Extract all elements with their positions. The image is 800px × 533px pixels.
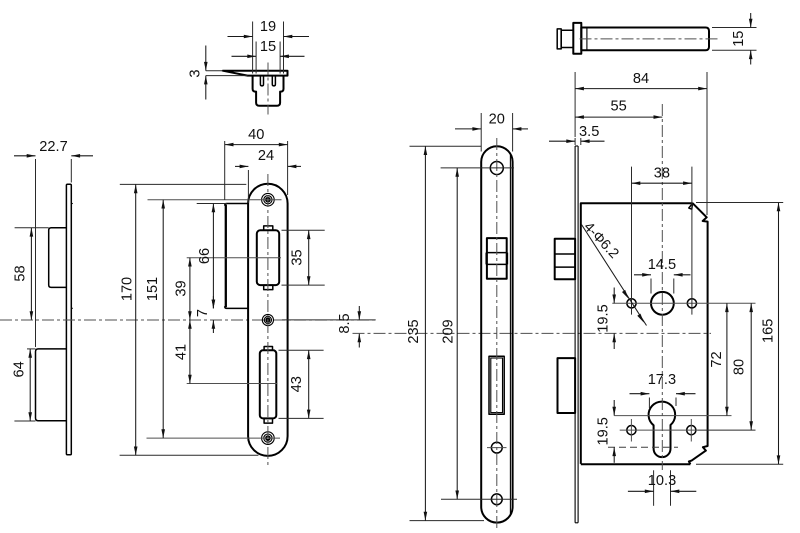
svg-text:19.5: 19.5: [595, 417, 611, 445]
dim 35: [282, 229, 325, 231]
dim 151: [162, 200, 164, 438]
dim 66: [197, 203, 227, 205]
lip fold ticks: [71, 203, 73, 205]
dim 235: [410, 145, 482, 147]
strike side: plate: [66, 184, 71, 454]
dim 15: [712, 27, 757, 29]
svg-text:170: 170: [119, 277, 135, 301]
svg-text:66: 66: [197, 248, 213, 264]
dim 19.5 lower: [613, 400, 615, 416]
dim 14.5: [650, 279, 652, 294]
latch bolt in case: [555, 239, 575, 279]
svg-text:151: 151: [145, 277, 161, 301]
latch head joint: [586, 28, 588, 51]
screw hole bottom: [262, 432, 275, 445]
deadbolt roller: [260, 350, 277, 418]
centerline: [267, 63, 269, 115]
svg-text:19.5: 19.5: [595, 304, 611, 332]
svg-text:84: 84: [633, 71, 649, 87]
svg-text:72: 72: [709, 351, 725, 367]
vertical centerline: [267, 174, 269, 468]
strike front: lip left edge: [225, 205, 227, 308]
svg-text:58: 58: [12, 265, 28, 281]
svg-text:40: 40: [248, 127, 264, 143]
upper fixing holes: [627, 299, 636, 308]
dim 84: [574, 72, 576, 137]
row: bottom hole center: [147, 437, 281, 439]
dust box top view: cup outline: [253, 76, 284, 106]
centerline: [580, 38, 721, 40]
dim 8.5: [358, 306, 360, 320]
row 333.4 (latch axis): [353, 332, 712, 334]
svg-text:43: 43: [289, 376, 305, 392]
svg-text:38: 38: [654, 166, 670, 182]
strike front: lip top/bottom edges: [225, 204, 249, 206]
screw hole middle: [262, 314, 273, 325]
top screw hole: [490, 162, 503, 175]
dim 3.5: [574, 138, 576, 145]
svg-text:41: 41: [173, 344, 189, 360]
faceplate side edge: [574, 146, 576, 523]
dim 170: [120, 183, 247, 185]
svg-text:64: 64: [12, 361, 28, 377]
strike side: lower cup: [36, 349, 67, 421]
dim 64: [27, 348, 36, 350]
svg-text:209: 209: [441, 319, 457, 343]
follower/cylinder vertical centerline: [661, 104, 663, 470]
svg-text:14.5: 14.5: [648, 257, 676, 273]
deadbolt in case: [558, 358, 576, 413]
latch window: [487, 238, 507, 279]
centerline: [496, 138, 498, 530]
datum row y=320: [0, 319, 376, 321]
dim 80: [698, 429, 756, 431]
svg-text:20: 20: [489, 112, 505, 128]
latch stem: [561, 30, 573, 47]
svg-text:80: 80: [731, 359, 747, 375]
euro cylinder: [649, 402, 676, 458]
lock case outline: [581, 203, 693, 464]
dim 41: [189, 320, 191, 384]
svg-text:3.5: 3.5: [579, 124, 599, 140]
leader 4-phi6.2: [582, 225, 647, 326]
dim 39: [189, 258, 191, 320]
svg-text:15: 15: [260, 39, 276, 55]
follower hub: [651, 292, 674, 315]
latch flange: [573, 23, 581, 54]
svg-text:39: 39: [173, 280, 189, 296]
row: lower holes: [620, 429, 698, 431]
svg-text:24: 24: [258, 148, 274, 164]
faceplate inner edge line: [509, 153, 511, 516]
dim 40: [224, 141, 226, 200]
dim 43: [279, 349, 324, 351]
dim 10.3: [653, 470, 655, 506]
svg-text:235: 235: [406, 319, 422, 343]
strike side: upper cup: [49, 228, 67, 288]
svg-text:7: 7: [195, 309, 211, 317]
row: cylinder center: [614, 415, 731, 417]
dim 15: [255, 42, 257, 74]
lower fixing holes: [627, 426, 636, 435]
dim 38: [632, 182, 692, 184]
latch roller: [257, 230, 279, 285]
dim 19: [252, 22, 254, 74]
bottom screw hole: [491, 494, 502, 505]
svg-text:35: 35: [289, 249, 305, 265]
svg-text:19: 19: [260, 19, 276, 35]
dim 7: [212, 296, 214, 308]
deadbolt window: [489, 356, 504, 414]
dim 72: [726, 303, 728, 415]
dim 58: [15, 227, 49, 229]
dim 22.7: [35, 159, 37, 347]
latch bolt body: [581, 28, 709, 51]
row: top hole center: [148, 199, 282, 201]
svg-text:15: 15: [731, 31, 747, 47]
row: hidden 447: [608, 446, 678, 448]
svg-text:3: 3: [187, 70, 203, 78]
faceplate outline: [481, 146, 512, 522]
dim 3 (plate thickness): [206, 70, 223, 72]
strike front: plate outline: [248, 184, 288, 456]
dust box prong right: [272, 76, 275, 86]
dim 165: [696, 202, 783, 204]
dim 19.5 upper: [613, 288, 615, 304]
svg-text:10.3: 10.3: [648, 473, 676, 489]
row: deadbolt center: [187, 383, 278, 385]
lower holes vertical crosshairs: [630, 419, 632, 442]
hole centerline verticals (38 extensions): [631, 167, 633, 315]
svg-text:165: 165: [760, 319, 776, 343]
dim 209: [441, 167, 514, 169]
svg-text:22.7: 22.7: [39, 139, 67, 155]
corner hook top: [689, 203, 693, 209]
lower hole: [491, 442, 502, 453]
dust box top view: plate: [223, 71, 288, 76]
dust box prong left: [260, 76, 263, 86]
svg-text:55: 55: [610, 99, 626, 115]
svg-text:17.3: 17.3: [648, 372, 676, 388]
dim 20: [480, 113, 482, 152]
svg-text:8.5: 8.5: [337, 313, 353, 333]
screw hole top: [262, 193, 275, 206]
row: latch center: [187, 257, 281, 259]
dim 17.3: [648, 398, 650, 409]
dim 55: [575, 116, 662, 118]
dim 24: [247, 170, 249, 203]
row: follower centers: [612, 302, 755, 304]
